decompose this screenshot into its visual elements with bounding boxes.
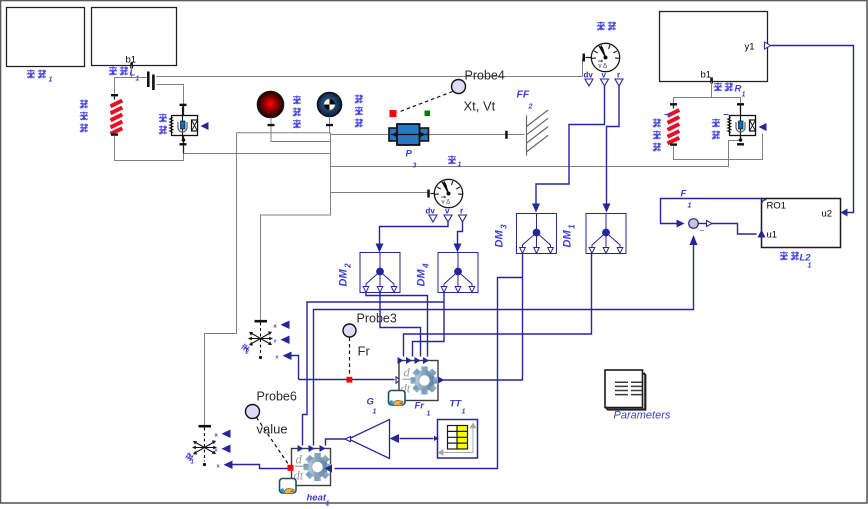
- spring L1 bottom flange: [111, 133, 118, 135]
- sensor gauge 平台 (absolute sensor S1): [583, 43, 620, 71]
- svg-text:1: 1: [136, 76, 140, 83]
- sensor gauge S2: [427, 179, 462, 207]
- svg-text:−: −: [700, 226, 705, 236]
- Probe3 red tap square: [347, 377, 353, 383]
- wire hub line A: [237, 132, 331, 134]
- svg-text:v Δ: v Δ: [599, 64, 608, 70]
- svg-text:y1: y1: [745, 42, 755, 53]
- sliding mass P3: [389, 124, 429, 145]
- svg-text:v: v: [445, 207, 450, 216]
- force star J2 (upper): [248, 320, 273, 359]
- Probe4 red tap square: [390, 110, 397, 117]
- wire b1 stub right: [711, 82, 713, 98]
- wire star J1.x to heat1 left port: [233, 465, 288, 469]
- svg-text:P: P: [406, 149, 413, 160]
- Fr1 output arrow and wire to net: [438, 377, 445, 384]
- label of blue sphere (vertical cjk): [355, 95, 363, 128]
- label 平台R1: [714, 83, 746, 99]
- wire spring R bottom to sensor triangle: [674, 134, 763, 160]
- wire branch DM3.out1 second vertical: [335, 278, 523, 469]
- wire hub to P left flange: [331, 134, 390, 136]
- svg-text:2: 2: [528, 104, 533, 111]
- svg-text:dv: dv: [426, 207, 436, 216]
- inputs z y x of star J2: [274, 324, 280, 361]
- wire gauge1.v to DM3: [536, 86, 605, 207]
- flange of blue sphere: [329, 117, 331, 134]
- mass sphere M1 (red): [258, 92, 284, 118]
- flange of red sphere: [270, 118, 272, 142]
- svg-text:RO1: RO1: [767, 201, 787, 212]
- fixed wall FF2: [527, 110, 549, 156]
- svg-text:Parameters: Parameters: [614, 410, 671, 422]
- wire gauge2.r to DM4: [458, 222, 463, 247]
- wire P right flange to wall FF2: [429, 134, 525, 136]
- svg-text:R: R: [735, 84, 742, 95]
- block 平台R (empty model box): [660, 12, 768, 82]
- Probe6 red tap square: [288, 465, 294, 471]
- svg-text:Probe6: Probe6: [257, 390, 297, 404]
- label damper L (vertical cjk): [159, 114, 167, 135]
- wire long top bus to gauge1: [157, 59, 583, 77]
- wire feedback output to u1: [699, 223, 707, 225]
- wire DM2.out2 to Fr1.in3: [380, 293, 421, 357]
- svg-text:G: G: [367, 397, 375, 408]
- svg-text:FF: FF: [517, 89, 530, 101]
- signal triangle of sensor R: [759, 123, 767, 131]
- wire y1 to u2 of RO1: [771, 46, 854, 213]
- svg-text:r: r: [460, 207, 463, 216]
- block 材料1 (empty model box): [7, 8, 85, 67]
- gauge1 pins dv v r: [584, 71, 621, 80]
- heat1 top input arrows: [298, 445, 304, 452]
- svg-text:d: d: [296, 453, 303, 467]
- G1 input arrow from TT1: [400, 438, 434, 440]
- wire RO1 hook to feedback F1 input: [661, 199, 762, 224]
- notepad icon of Fr1: [389, 391, 406, 406]
- damper/force-sensor L1 top flange: [183, 105, 185, 116]
- Parameters record icon: [605, 370, 645, 410]
- wire DM4.out1 down with branches: [413, 293, 445, 357]
- damper L1 bottom flange with dot: [183, 136, 185, 154]
- force star J1 (lower): [192, 425, 217, 466]
- label 平台L1: [109, 67, 140, 83]
- wire hub line B: [271, 141, 331, 143]
- pin RO1 hook: [762, 200, 767, 205]
- svg-text:value: value: [257, 422, 288, 437]
- wire hub left vertical to lower force star: [205, 133, 237, 426]
- svg-text:v Δ: v Δ: [442, 200, 451, 206]
- svg-text:3: 3: [413, 163, 417, 170]
- svg-text:Xt, Vt: Xt, Vt: [464, 99, 496, 114]
- label 斜1 on bus: [448, 156, 462, 169]
- damper R bottom flange with dot: [740, 136, 742, 141]
- Fr1 top input arrows: [398, 357, 404, 364]
- damper/force-sensor R body: [728, 107, 756, 139]
- wire feedback up-arrow from below: [690, 235, 698, 245]
- wire clutch to damper top left: [157, 85, 184, 105]
- demux DM4: [438, 253, 478, 293]
- spring R top flange: [670, 103, 677, 105]
- heat1 right port arrow: [325, 465, 333, 473]
- wire damper bottom to hub: [184, 153, 331, 155]
- time table TT1: [434, 420, 478, 459]
- feedback F1: [689, 219, 699, 229]
- svg-text:2: 2: [245, 350, 250, 356]
- label spring R (vertical cjk): [653, 115, 670, 152]
- wire gauge1.r to DM1: [607, 86, 620, 207]
- svg-text:1: 1: [808, 263, 812, 270]
- svg-text:u1: u1: [767, 230, 778, 241]
- label spring L (vertical cjk): [80, 100, 88, 133]
- wire gauge2.v to DM2: [380, 222, 449, 247]
- label J2 (rotated): [241, 343, 251, 353]
- svg-text:1: 1: [462, 409, 466, 416]
- svg-text:1: 1: [373, 409, 377, 416]
- svg-text:Probe3: Probe3: [357, 312, 397, 326]
- wire b1 stub left: [131, 66, 133, 78]
- wire DM2.out1 to Fr1.in4: [366, 293, 428, 357]
- wire DM1.out1 to Fr1.in1: [404, 253, 592, 357]
- wire star J2.x to Fr bus: [292, 356, 299, 380]
- wire hub to gauge2 flange: [331, 192, 428, 194]
- svg-text:1: 1: [742, 92, 746, 99]
- svg-text:Fr: Fr: [415, 401, 426, 412]
- label 平台 above gauge1: [597, 22, 616, 31]
- demux DM3: [517, 214, 557, 254]
- green square: [425, 111, 431, 117]
- svg-text:TT: TT: [450, 399, 463, 410]
- derivative block Fr1: [399, 361, 439, 401]
- svg-text:1: 1: [49, 77, 53, 84]
- label of red sphere (vertical cjk): [293, 96, 301, 129]
- svg-text:1: 1: [688, 203, 692, 210]
- svg-text:dv: dv: [584, 71, 594, 80]
- wire b1 to spring top: [115, 78, 148, 94]
- svg-text:r: r: [617, 71, 620, 80]
- inputs z y x of star J1: [215, 433, 221, 470]
- damper/force-sensor L1 body: [170, 107, 198, 139]
- svg-text:Probe4: Probe4: [465, 69, 505, 83]
- label damper R (vertical cjk): [712, 115, 729, 140]
- svg-text:heat: heat: [307, 493, 327, 504]
- notepad icon of heat1: [280, 479, 297, 494]
- svg-text:Fr: Fr: [358, 344, 371, 359]
- label 平台L2: [780, 252, 812, 270]
- label J1 (rotated): [185, 452, 195, 462]
- wire hub main vertical: [261, 133, 331, 321]
- svg-text:v: v: [602, 71, 607, 80]
- clutch flange bars left section: [147, 72, 150, 88]
- wire b1 to spring/damper tops right: [674, 98, 741, 104]
- spring L1 top flange: [111, 94, 118, 96]
- damper/force-sensor R top flange: [737, 103, 744, 105]
- svg-text:1: 1: [458, 162, 462, 169]
- label 材料1: [27, 70, 53, 84]
- spring L1 (red coil): [111, 101, 123, 134]
- spring R bottom flange: [670, 143, 677, 145]
- demux DM1: [586, 214, 626, 254]
- gain G1 (points left): [349, 420, 390, 459]
- wire DM3.out1 long vertical: [522, 253, 524, 381]
- signal triangle of sensor L1: [201, 122, 209, 130]
- svg-text:u2: u2: [822, 209, 833, 220]
- wire branch DM4.out1 to heat1.in1: [303, 302, 445, 446]
- gauge2 pins dv v r: [426, 207, 464, 216]
- mass sphere M2 (blue): [318, 93, 342, 117]
- svg-text:d: d: [404, 366, 411, 380]
- block 平台L2 (RO1): [762, 199, 841, 248]
- spring R (red coil): [668, 110, 680, 143]
- svg-text:b1: b1: [701, 70, 712, 81]
- svg-text:1: 1: [427, 411, 431, 418]
- svg-text:1: 1: [326, 501, 330, 508]
- wire branch DM4.out1 to heat1.in2 and feedback F1: [314, 245, 694, 446]
- G1 output open arrow and wire to heat1.in3: [345, 437, 351, 442]
- block 平台L (empty model box): [92, 8, 177, 66]
- wire spring bottom to damper bottom: [115, 136, 184, 161]
- derivative block heat1: [292, 449, 332, 486]
- demux DM2: [360, 253, 400, 293]
- wire Fr bus into Fr1 left port: [299, 379, 395, 381]
- wire bottom bus to right damper: [331, 141, 740, 167]
